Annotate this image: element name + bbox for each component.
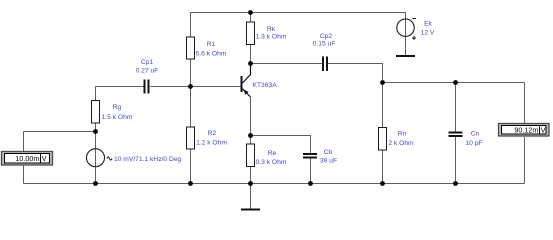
svg-text:0.27 uF: 0.27 uF	[136, 68, 159, 75]
svg-text:V: V	[541, 125, 546, 134]
svg-text:1.5 k Ohm: 1.5 k Ohm	[102, 114, 133, 121]
svg-text:Ek: Ek	[424, 21, 432, 28]
svg-text:Rn: Rn	[398, 131, 407, 138]
svg-text:1.3 k Ohm: 1.3 k Ohm	[256, 34, 287, 41]
svg-text:Cn: Cn	[471, 131, 480, 138]
svg-text:Re: Re	[268, 150, 277, 157]
svg-text:0.3 k Ohm: 0.3 k Ohm	[256, 159, 287, 166]
svg-text:10 mV/71.1 kHz/0 Deg: 10 mV/71.1 kHz/0 Deg	[114, 156, 182, 163]
svg-text:Cb: Cb	[324, 149, 333, 156]
svg-text:90.12m: 90.12m	[514, 125, 538, 134]
svg-text:2 k Ohm: 2 k Ohm	[388, 140, 414, 147]
svg-text:Cp1: Cp1	[141, 59, 154, 66]
svg-text:5.6 k Ohm: 5.6 k Ohm	[196, 51, 227, 58]
svg-text:1.2 k Ohm: 1.2 k Ohm	[196, 140, 227, 147]
svg-text:10.00m: 10.00m	[15, 154, 39, 163]
svg-text:V: V	[42, 154, 47, 163]
svg-text:0.15 uF: 0.15 uF	[313, 41, 336, 48]
svg-text:Cp2: Cp2	[320, 33, 333, 40]
svg-text:39 uF: 39 uF	[320, 158, 337, 165]
svg-text:12 V: 12 V	[421, 30, 435, 37]
svg-text:R1: R1	[207, 41, 216, 48]
svg-text:Rg: Rg	[113, 104, 122, 111]
svg-text:KT363A: KT363A	[253, 82, 278, 89]
svg-text:10 pF: 10 pF	[465, 140, 482, 147]
svg-text:R2: R2	[208, 130, 217, 137]
svg-text:Rk: Rk	[267, 26, 276, 33]
